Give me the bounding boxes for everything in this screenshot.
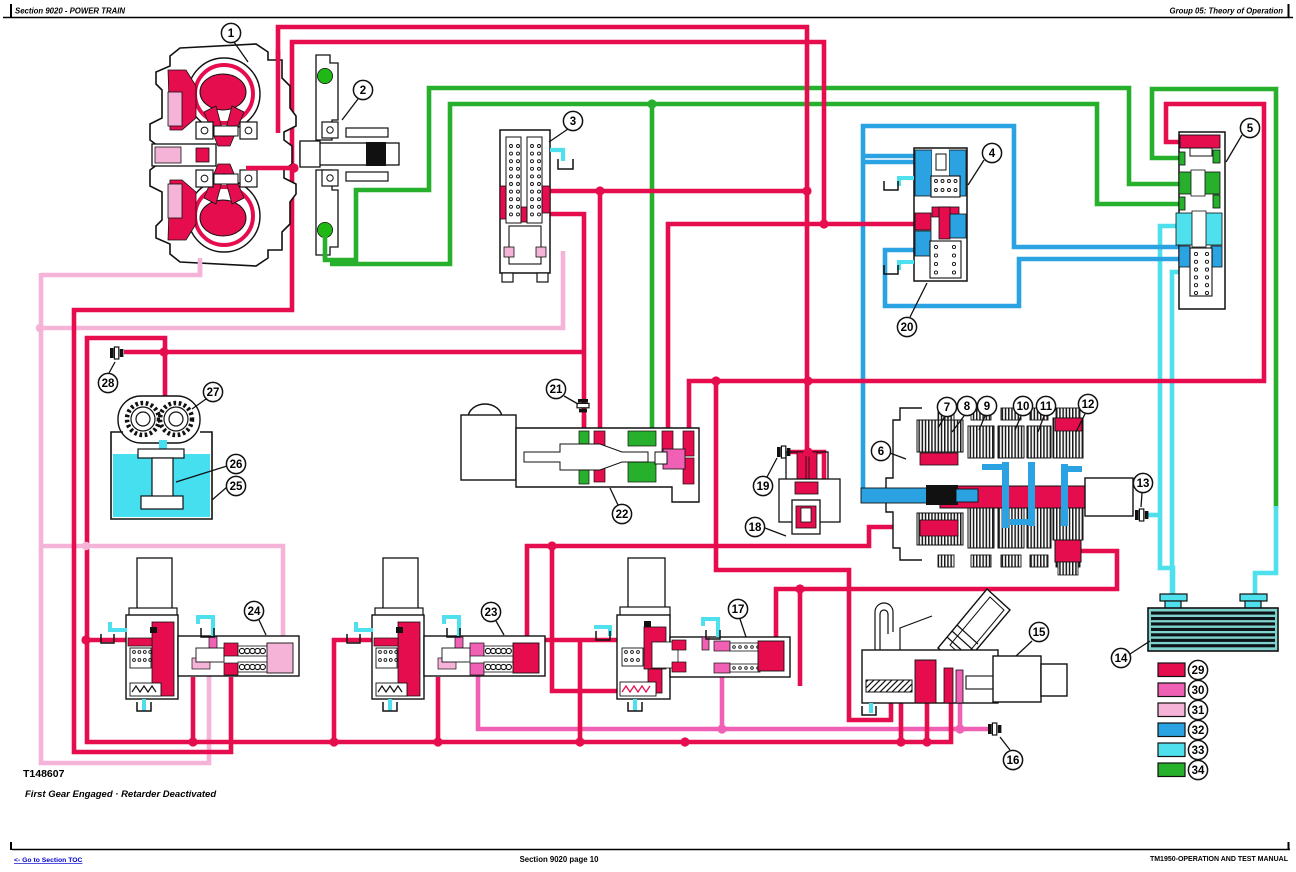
svg-text:32: 32 [1192,725,1205,737]
svg-text:20: 20 [901,322,914,334]
svg-text:7: 7 [944,402,950,414]
svg-text:Group 05: Theory of Operation: Group 05: Theory of Operation [1170,7,1284,16]
svg-text:Section 9020 - POWER TRAIN: Section 9020 - POWER TRAIN [15,7,125,16]
svg-text:11: 11 [1040,401,1053,413]
svg-text:22: 22 [616,509,629,521]
svg-text:3: 3 [570,116,576,128]
svg-text:TM1950-OPERATION AND TEST MANU: TM1950-OPERATION AND TEST MANUAL [1150,856,1289,863]
svg-text:18: 18 [749,522,762,534]
svg-text:14: 14 [1115,653,1128,665]
svg-text:23: 23 [485,607,498,619]
svg-text:29: 29 [1192,665,1205,677]
svg-text:First Gear Engaged · Retarder: First Gear Engaged · Retarder Deactivate… [25,789,216,800]
svg-text:28: 28 [102,378,115,390]
svg-text:9: 9 [984,401,990,413]
svg-text:<- Go to Section TOC: <- Go to Section TOC [14,857,83,864]
svg-text:2: 2 [360,85,366,97]
svg-text:24: 24 [248,606,261,618]
svg-text:12: 12 [1082,399,1095,411]
svg-text:26: 26 [230,459,243,471]
svg-text:31: 31 [1192,705,1205,717]
svg-text:Section 9020 page 10: Section 9020 page 10 [520,855,600,864]
svg-text:30: 30 [1192,685,1205,697]
svg-text:21: 21 [550,384,563,396]
svg-text:4: 4 [989,148,996,160]
svg-text:T148607: T148607 [23,768,65,780]
svg-text:33: 33 [1192,745,1205,757]
svg-text:10: 10 [1017,401,1030,413]
svg-text:15: 15 [1033,627,1046,639]
svg-text:17: 17 [732,604,745,616]
svg-text:1: 1 [228,28,235,40]
svg-text:27: 27 [207,387,220,399]
svg-text:19: 19 [757,481,770,493]
svg-text:34: 34 [1192,765,1205,777]
svg-text:25: 25 [230,481,243,493]
svg-text:16: 16 [1007,755,1020,767]
svg-text:8: 8 [964,401,971,413]
svg-text:5: 5 [1247,123,1254,135]
svg-text:13: 13 [1137,478,1150,490]
svg-text:6: 6 [878,446,884,458]
